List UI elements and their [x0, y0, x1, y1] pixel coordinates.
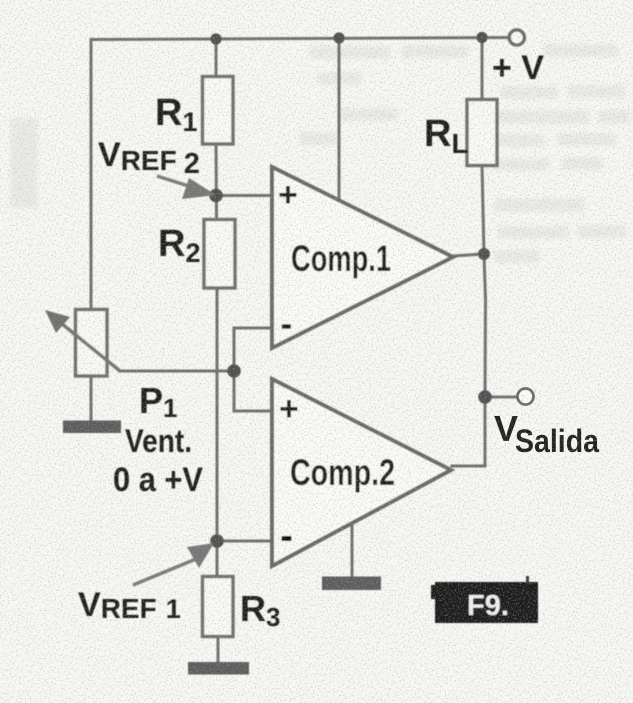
resistor R3: [203, 577, 281, 637]
resistor R1: [155, 77, 233, 145]
terminal Salida: [518, 389, 534, 405]
wire: left rail from top rail down to P1: [90, 40, 93, 311]
figure tag F9.: [431, 576, 538, 623]
op-amp U1 body: [272, 167, 453, 348]
VREF1 pointer arrow: [133, 559, 196, 585]
label VREF1 with pointer arrow: [78, 543, 214, 624]
wire: Comp.1 output to junction: [453, 254, 484, 256]
node: Comp.1 output junction: [478, 248, 490, 260]
node: VREF1 junction: [210, 534, 224, 548]
op-amp U2 Comp.2: [272, 379, 451, 566]
wire: divider rail R2 bottom to R3 top: [216, 287, 219, 577]
ground (P1): [63, 421, 121, 434]
wire: R1 bottom to R2 top (VREF2 node rail): [215, 143, 219, 220]
wire: node A down to Comp.2 + input: [234, 371, 272, 411]
wire: Comp.2 ground stem: [351, 523, 354, 577]
wire: Comp.1 - input loop to wiper node: [234, 328, 272, 371]
VREF2 pointer arrow: [157, 176, 198, 189]
Comp.1 inverting input -: [282, 324, 291, 328]
resistor RL body: [467, 100, 497, 166]
ground (R3): [188, 662, 249, 675]
resistor R3 body: [203, 577, 234, 637]
resistor R1 body: [203, 77, 234, 145]
label VREF2 with pointer arrow: [98, 136, 216, 199]
wire: R3 bottom to ground: [217, 636, 220, 663]
wire: RL bottom to output junction: [482, 165, 484, 254]
wire: RL top stem from rail: [481, 38, 484, 100]
potentiometer P1 adjustment arrow: [56, 319, 120, 371]
wire: P1 wiper to node A: [120, 370, 234, 373]
wire: P1 bottom to ground: [90, 376, 93, 422]
node A: wiper junction: [227, 364, 241, 378]
node: top rail / RL junction: [476, 32, 487, 43]
wire: output rail down to salida node: [484, 254, 486, 397]
wire: VREF1 node to Comp.2 - input: [217, 540, 272, 543]
node: top rail / R1 junction: [210, 33, 221, 44]
op-amp U2 body: [272, 379, 451, 566]
wire: VREF2 node to Comp.1 + input: [216, 194, 272, 197]
potentiometer P1: [45, 310, 177, 424]
node: salida junction: [478, 390, 492, 404]
ground (Comp.2): [322, 577, 381, 591]
wire: salida node stub to terminal: [485, 396, 517, 399]
wire: top +V rail: [91, 38, 509, 40]
node: VREF2 junction: [209, 189, 223, 203]
wire: salida node down and left to Comp.2 output: [452, 397, 485, 466]
node: top rail / Comp.1 supply junction: [333, 32, 344, 43]
wire: R1 top stem: [215, 39, 218, 77]
wire: Comp.1 supply from top rail: [338, 38, 341, 201]
resistor RL: [424, 100, 497, 166]
Comp.2 inverting input -: [282, 536, 292, 541]
resistor R2: [158, 220, 235, 289]
terminal +V: [509, 30, 524, 45]
potentiometer P1 body: [76, 310, 108, 377]
resistor R2 body: [204, 220, 235, 289]
op-amp U1 Comp.1: [272, 167, 453, 348]
